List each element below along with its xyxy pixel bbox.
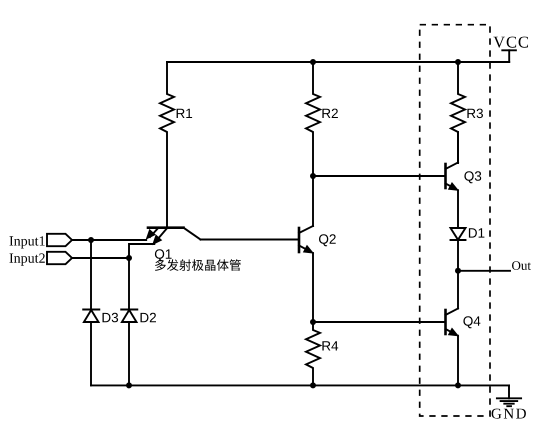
resistor R2	[306, 62, 320, 176]
wire Input2 node down to D2	[128, 258, 130, 310]
resistor R4	[306, 322, 320, 385]
label D1	[469, 228, 485, 237]
dashed box totem-pole output stage	[420, 25, 490, 416]
transistor Q1 multi-emitter	[147, 228, 201, 245]
label D2	[141, 313, 157, 322]
label Input2	[10, 253, 45, 265]
node Q2 collector junction	[310, 173, 316, 179]
VCC power symbol	[502, 50, 516, 62]
input terminal Input1	[47, 234, 72, 246]
node Input1 junction	[88, 237, 94, 243]
label D3	[103, 313, 119, 323]
transistor Q2	[299, 226, 313, 253]
wire Out	[458, 270, 510, 272]
wire Input1 to Q1 emitter1	[72, 239, 146, 241]
wire Q2 collector up to node	[312, 176, 314, 226]
node R3 top junction	[455, 59, 461, 65]
resistor R3	[451, 62, 465, 163]
label VCC	[493, 37, 528, 48]
wire D3 to ground rail	[90, 322, 92, 385]
label 多发射极晶体管 multi-emitter transistor note	[155, 259, 241, 271]
input terminal Input2	[47, 252, 72, 264]
wire VCC rail top	[167, 61, 509, 63]
label GND	[492, 409, 526, 419]
wire Q4 collector to Out node	[457, 271, 459, 309]
wire node to Q3 base	[313, 175, 446, 177]
node Out junction	[455, 268, 461, 274]
transistor Q3	[446, 163, 459, 191]
node Q4 emitter ground junction	[455, 382, 461, 388]
node Q2 emitter junction	[310, 319, 316, 325]
transistor Q4	[446, 309, 459, 336]
diode D3	[83, 310, 99, 323]
label Q3	[464, 171, 481, 183]
label Q4	[463, 316, 480, 328]
node R4 ground junction	[310, 382, 316, 388]
wire D2 to ground rail	[128, 322, 130, 385]
ground GND symbol	[497, 385, 521, 406]
label Out	[512, 261, 531, 270]
wire D1 to Out node	[457, 240, 459, 271]
wire Q3 emitter to D1	[457, 190, 459, 228]
label R2	[322, 109, 338, 118]
diode D1	[451, 228, 466, 240]
label Q1	[155, 249, 172, 261]
label Input1	[10, 236, 45, 248]
label Q2	[319, 234, 336, 246]
wire bottom ground rail	[91, 384, 509, 386]
wire Input2 to node	[72, 257, 129, 259]
label R3	[467, 109, 483, 119]
label R4	[322, 341, 338, 350]
label R1	[177, 109, 193, 118]
resistor R1	[160, 62, 174, 228]
wire Q1 collector to Q2 base	[201, 239, 300, 241]
wire node up to Q1 emitter2	[129, 244, 154, 258]
wire Q2 emitter down to node	[312, 253, 314, 322]
node Input2 junction	[126, 255, 132, 261]
wire Q4 emitter to ground rail	[457, 336, 459, 386]
wire Q3 collector to R3	[457, 132, 459, 163]
wire Input1 node down to D3	[90, 240, 92, 310]
diode D2	[121, 310, 137, 323]
node R2 top junction	[310, 59, 316, 65]
wire node to Q4 base	[313, 321, 446, 323]
node D2 ground junction	[126, 382, 132, 388]
